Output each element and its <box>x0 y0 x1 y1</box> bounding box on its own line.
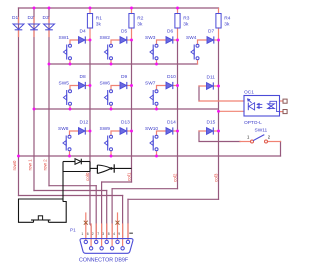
svg-text:D3: D3 <box>43 15 49 21</box>
svg-text:SW9: SW9 <box>100 126 111 132</box>
svg-text:SW7: SW7 <box>145 80 156 86</box>
svg-text:SW2: SW2 <box>100 35 111 41</box>
svg-text:SW10: SW10 <box>145 126 158 132</box>
svg-text:SW8: SW8 <box>58 126 69 132</box>
svg-text:row 1: row 1 <box>27 159 32 171</box>
svg-text:D9: D9 <box>121 74 127 80</box>
svg-text:OC1: OC1 <box>244 90 254 96</box>
svg-text:D11: D11 <box>207 75 216 81</box>
svg-text:D15: D15 <box>207 120 216 126</box>
svg-text:D8: D8 <box>80 74 86 80</box>
svg-text:col0: col0 <box>85 172 90 181</box>
svg-text:R2: R2 <box>137 16 143 22</box>
svg-text:col3: col3 <box>213 173 218 182</box>
svg-text:D14: D14 <box>167 120 176 126</box>
svg-text:R4: R4 <box>224 16 230 22</box>
svg-text:D13: D13 <box>121 120 130 126</box>
svg-text:8: 8 <box>108 232 110 236</box>
svg-text:SW11: SW11 <box>255 128 268 134</box>
svg-text:9: 9 <box>118 232 120 236</box>
svg-text:4: 4 <box>113 232 115 236</box>
svg-text:D5: D5 <box>121 29 127 35</box>
svg-text:7: 7 <box>97 232 99 236</box>
svg-text:3k: 3k <box>137 22 143 28</box>
svg-text:D12: D12 <box>80 120 89 126</box>
svg-text:R3: R3 <box>183 16 189 22</box>
svg-text:D10: D10 <box>167 74 176 80</box>
svg-text:D4: D4 <box>80 29 86 35</box>
svg-text:3k: 3k <box>96 22 102 28</box>
svg-text:SW6: SW6 <box>100 80 111 86</box>
svg-text:col2: col2 <box>172 173 177 182</box>
svg-text:R1: R1 <box>96 16 102 22</box>
svg-text:D7: D7 <box>208 29 214 35</box>
svg-text:SW5: SW5 <box>59 80 70 86</box>
svg-text:3: 3 <box>102 232 104 236</box>
svg-text:D1: D1 <box>12 15 18 21</box>
svg-text:P1: P1 <box>70 228 76 233</box>
svg-text:row 2: row 2 <box>42 159 47 171</box>
svg-text:OPTO-L: OPTO-L <box>244 120 262 126</box>
svg-text:SW3: SW3 <box>145 35 156 41</box>
svg-text:D2: D2 <box>28 15 34 21</box>
svg-text:row0: row0 <box>12 160 17 170</box>
svg-text:2: 2 <box>92 232 94 236</box>
svg-text:3k: 3k <box>183 22 189 28</box>
svg-text:SW4: SW4 <box>186 35 197 41</box>
svg-text:1: 1 <box>81 232 83 236</box>
svg-text:3k: 3k <box>224 22 230 28</box>
svg-text:6: 6 <box>87 232 89 236</box>
svg-text:col1: col1 <box>126 172 131 181</box>
svg-text:SW1: SW1 <box>59 35 70 41</box>
svg-text:CONNECTOR DB9F: CONNECTOR DB9F <box>79 257 129 263</box>
svg-text:D6: D6 <box>167 29 173 35</box>
